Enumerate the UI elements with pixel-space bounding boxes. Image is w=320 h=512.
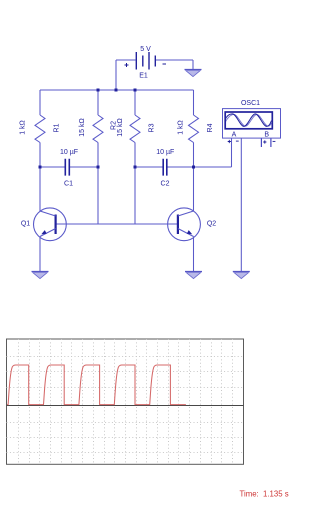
svg-text:R4: R4 (207, 123, 214, 132)
svg-text:1 kΩ: 1 kΩ (178, 120, 185, 135)
svg-text:R3: R3 (149, 123, 156, 132)
svg-text:Q2: Q2 (207, 220, 216, 227)
svg-text:Q1: Q1 (21, 220, 30, 227)
svg-text:10 µF: 10 µF (60, 149, 78, 156)
svg-text:5 V: 5 V (140, 46, 151, 53)
svg-text:C1: C1 (64, 180, 73, 187)
svg-text:B: B (264, 132, 269, 139)
svg-text:10 µF: 10 µF (156, 149, 174, 156)
svg-text:Time: 1.135 s: Time: 1.135 s (240, 489, 289, 498)
svg-text:C2: C2 (161, 180, 170, 187)
svg-text:15 kΩ: 15 kΩ (117, 118, 124, 136)
svg-text:OSC1: OSC1 (241, 100, 260, 107)
svg-text:A: A (232, 132, 237, 139)
svg-text:E1: E1 (139, 73, 148, 80)
svg-text:15 kΩ: 15 kΩ (79, 118, 86, 136)
svg-text:1 kΩ: 1 kΩ (20, 120, 27, 135)
svg-text:R1: R1 (54, 123, 61, 132)
